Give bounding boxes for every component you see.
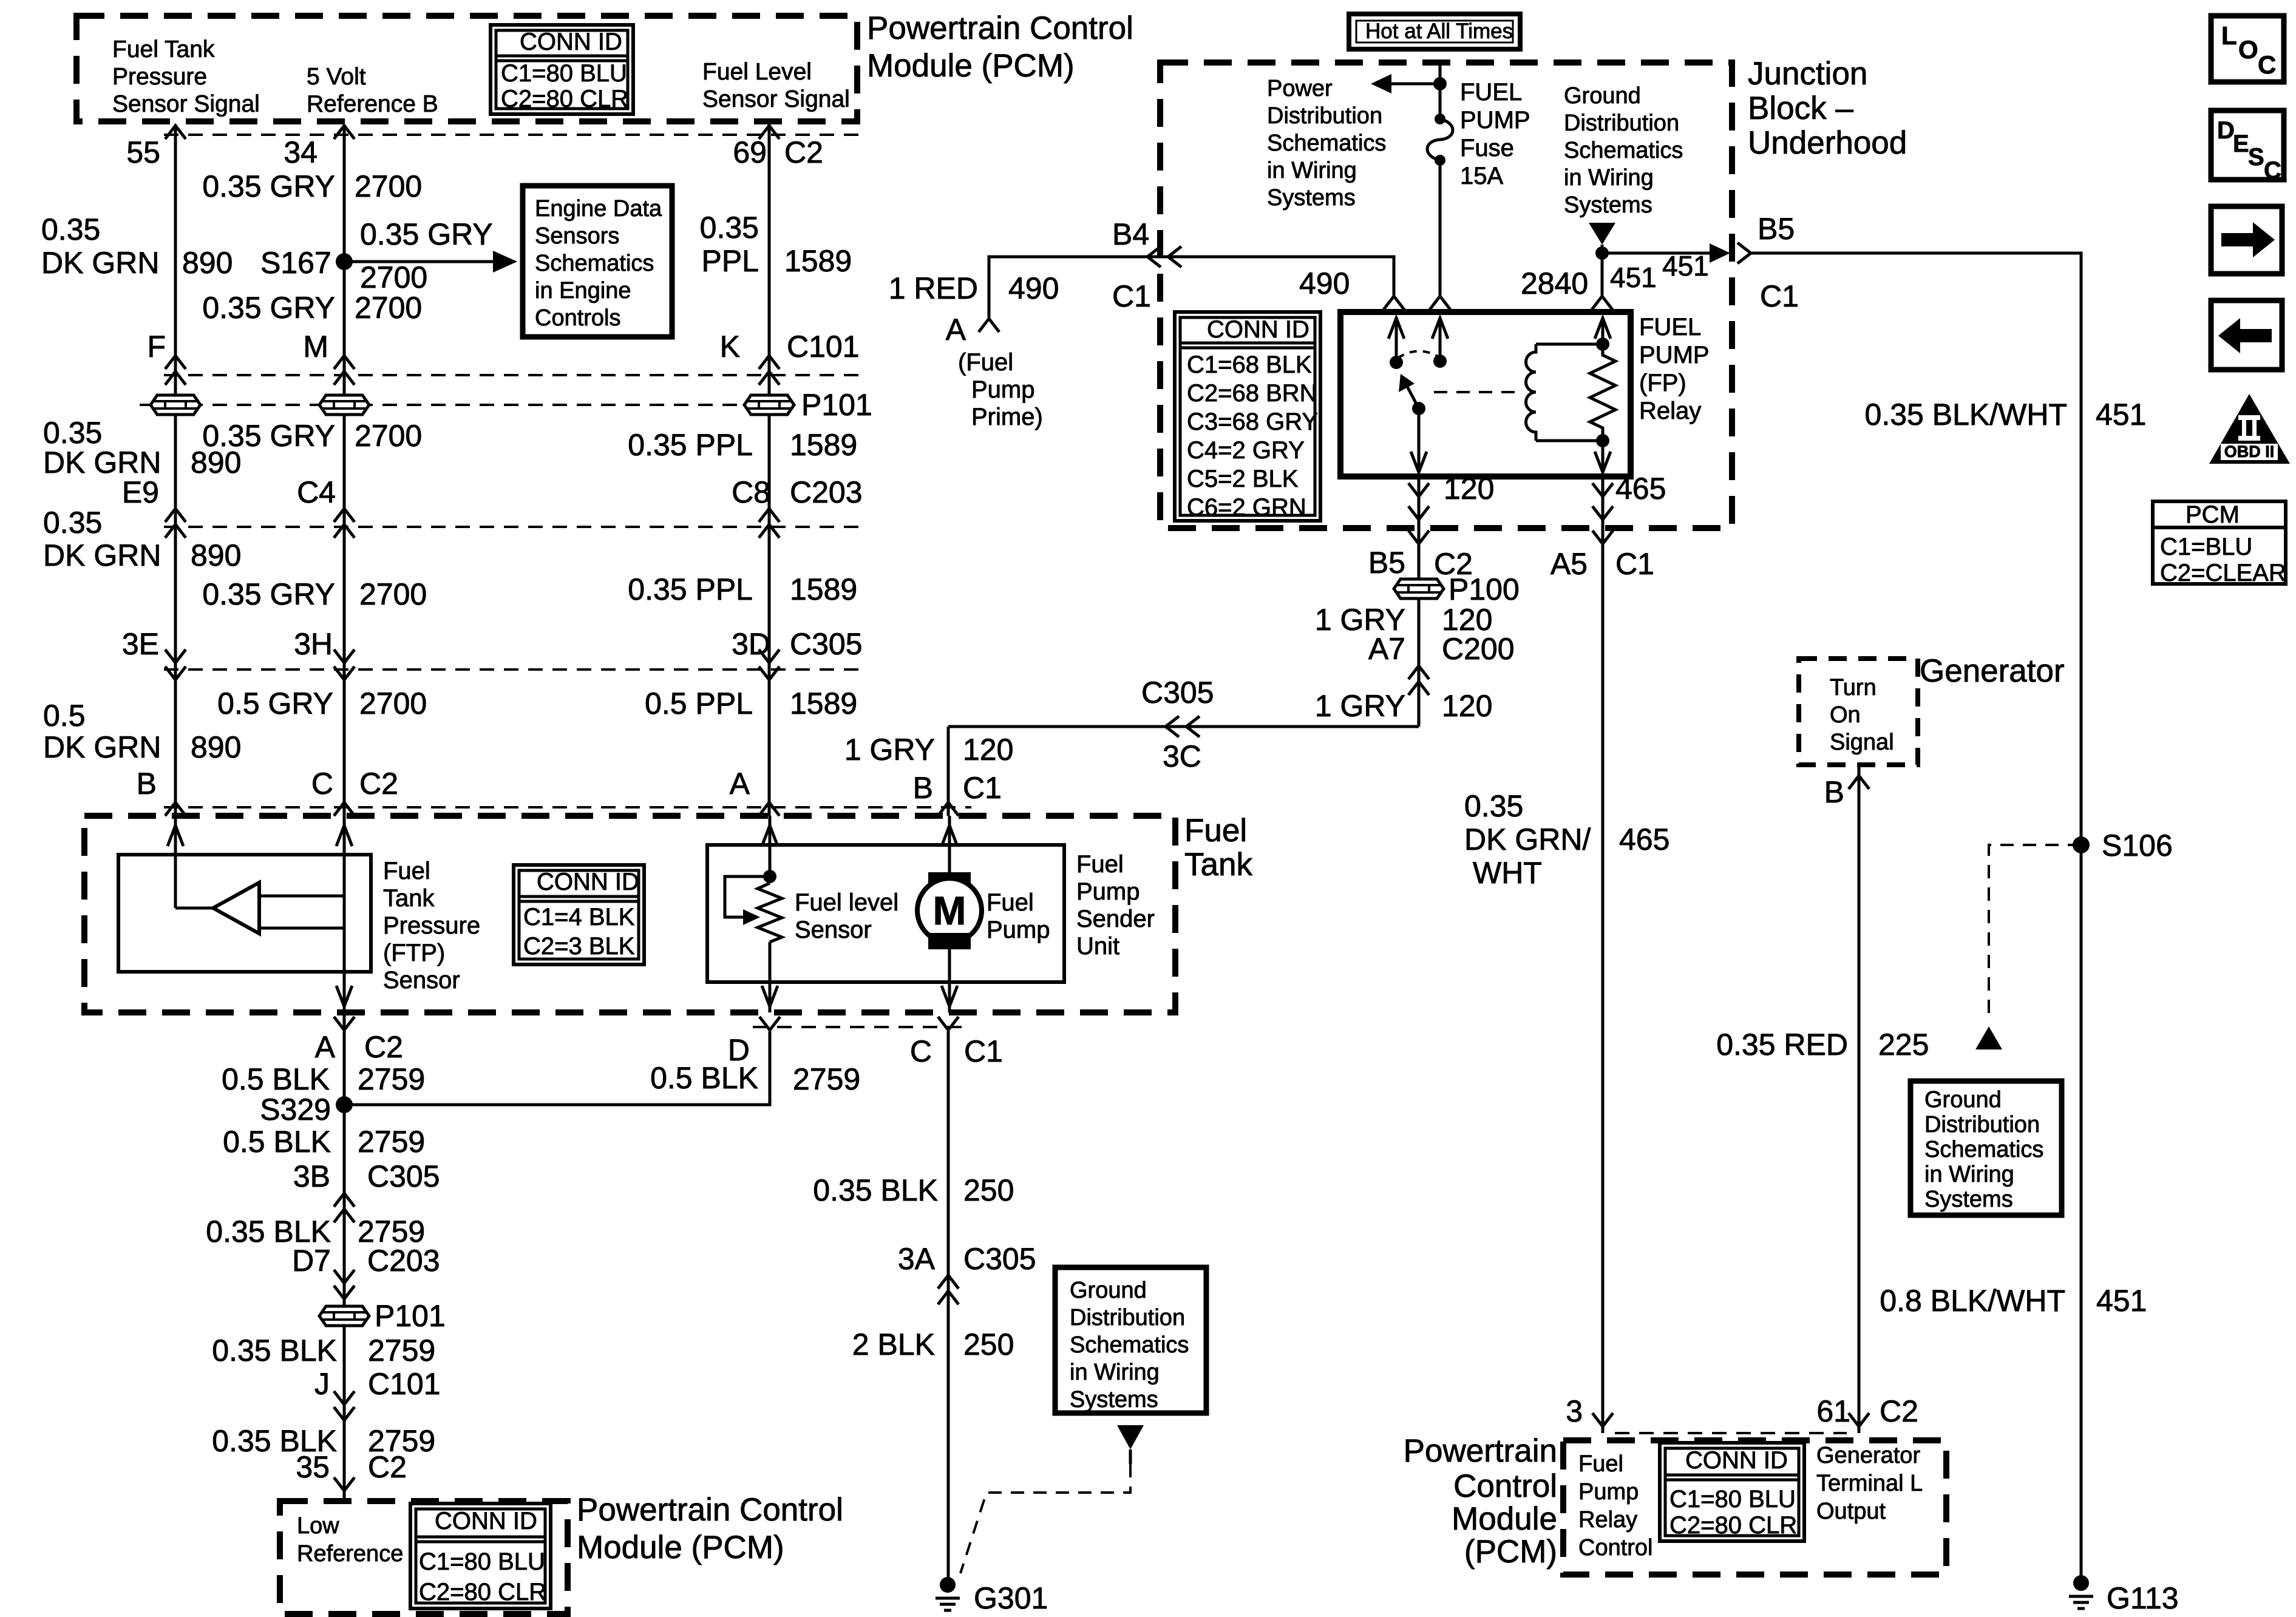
svg-text:Pump: Pump <box>971 376 1035 403</box>
svg-text:0.35 GRY: 0.35 GRY <box>360 217 493 251</box>
svg-text:C1: C1 <box>1760 279 1799 313</box>
svg-text:0.35: 0.35 <box>41 212 100 246</box>
svg-text:C5=2 BLK: C5=2 BLK <box>1187 466 1299 492</box>
svg-text:C305: C305 <box>963 1242 1036 1276</box>
svg-text:C1: C1 <box>964 1034 1003 1068</box>
svg-text:DK GRN: DK GRN <box>43 730 161 764</box>
svg-text:C2=CLEAR: C2=CLEAR <box>2160 560 2286 586</box>
svg-text:CONN ID: CONN ID <box>1685 1447 1788 1474</box>
svg-text:CONN ID: CONN ID <box>537 869 639 895</box>
svg-text:Control: Control <box>1578 1535 1653 1561</box>
svg-text:C2=80 CLR: C2=80 CLR <box>419 1579 546 1605</box>
svg-text:3B: 3B <box>293 1159 330 1193</box>
svg-text:Schematics: Schematics <box>1924 1137 2043 1162</box>
svg-text:CONN ID: CONN ID <box>435 1508 537 1534</box>
svg-text:0.35 BLK/WHT: 0.35 BLK/WHT <box>1865 398 2067 432</box>
svg-text:C2=80 CLR: C2=80 CLR <box>1669 1512 1797 1539</box>
svg-text:C2=68 BRN: C2=68 BRN <box>1187 380 1317 407</box>
svg-text:A5: A5 <box>1550 547 1588 581</box>
svg-text:1 GRY: 1 GRY <box>1315 689 1405 723</box>
svg-text:B: B <box>913 771 933 805</box>
svg-text:PUMP: PUMP <box>1639 342 1710 368</box>
svg-text:(FP): (FP) <box>1639 370 1686 396</box>
svg-text:451: 451 <box>2096 1284 2147 1318</box>
svg-text:Module: Module <box>1452 1501 1557 1537</box>
svg-text:451: 451 <box>2096 398 2146 432</box>
svg-text:2700: 2700 <box>355 419 422 453</box>
svg-text:Pump: Pump <box>1076 878 1140 905</box>
svg-text:Ground: Ground <box>1924 1087 2002 1113</box>
svg-text:Control: Control <box>1453 1468 1557 1504</box>
svg-text:465: 465 <box>1619 822 1669 856</box>
svg-text:in Engine: in Engine <box>535 278 631 303</box>
svg-text:1589: 1589 <box>790 428 857 462</box>
svg-text:C1=80 BLU: C1=80 BLU <box>501 60 627 87</box>
svg-text:Junction: Junction <box>1748 56 1867 92</box>
svg-text:C1=68 BLK: C1=68 BLK <box>1187 351 1312 378</box>
svg-text:1 RED: 1 RED <box>889 271 978 305</box>
svg-text:G113: G113 <box>2107 1581 2179 1615</box>
svg-text:F: F <box>147 330 166 364</box>
svg-text:3: 3 <box>1566 1394 1583 1428</box>
svg-text:C203: C203 <box>790 475 863 509</box>
svg-text:3C: 3C <box>1163 739 1201 773</box>
svg-text:M: M <box>933 888 966 933</box>
svg-text:C305: C305 <box>1141 676 1214 710</box>
svg-text:120: 120 <box>1444 472 1494 506</box>
svg-text:C1: C1 <box>1615 547 1654 581</box>
svg-text:Fuel: Fuel <box>1184 813 1247 849</box>
svg-text:Sensor: Sensor <box>383 967 460 994</box>
svg-text:(PCM): (PCM) <box>1464 1534 1557 1570</box>
svg-text:DK GRN: DK GRN <box>43 446 161 480</box>
svg-text:B4: B4 <box>1112 217 1149 251</box>
svg-text:C4=2 GRY: C4=2 GRY <box>1187 437 1305 464</box>
svg-text:Module (PCM): Module (PCM) <box>577 1530 784 1565</box>
svg-text:0.5 GRY: 0.5 GRY <box>217 686 333 720</box>
svg-text:890: 890 <box>182 246 233 280</box>
svg-text:Sensor Signal: Sensor Signal <box>112 91 260 117</box>
svg-text:1589: 1589 <box>790 686 857 720</box>
svg-text:Schematics: Schematics <box>1267 131 1386 156</box>
svg-text:(FTP): (FTP) <box>383 940 445 966</box>
svg-text:A: A <box>946 313 966 347</box>
svg-text:C1=4 BLK: C1=4 BLK <box>523 904 635 931</box>
svg-text:C: C <box>311 767 333 801</box>
svg-text:E: E <box>2233 131 2249 157</box>
svg-text:Powertrain Control: Powertrain Control <box>577 1492 843 1528</box>
svg-text:890: 890 <box>191 538 241 572</box>
svg-text:0.8 BLK/WHT: 0.8 BLK/WHT <box>1880 1284 2065 1318</box>
svg-text:B5: B5 <box>1758 212 1795 246</box>
svg-text:C305: C305 <box>790 627 863 661</box>
svg-text:C1: C1 <box>963 771 1002 805</box>
svg-text:0.35 RED: 0.35 RED <box>1716 1028 1848 1062</box>
svg-text:C101: C101 <box>787 330 860 364</box>
svg-text:in Wiring: in Wiring <box>1564 165 1654 191</box>
svg-text:Sensor Signal: Sensor Signal <box>702 86 850 112</box>
svg-text:P101: P101 <box>375 1299 446 1333</box>
svg-text:PPL: PPL <box>701 244 759 278</box>
svg-text:Sensors: Sensors <box>535 223 619 249</box>
svg-text:DK GRN: DK GRN <box>41 246 159 280</box>
svg-text:0.35: 0.35 <box>43 416 102 450</box>
svg-text:S: S <box>2248 144 2264 171</box>
svg-text:35: 35 <box>296 1450 330 1484</box>
svg-text:Unit: Unit <box>1076 933 1119 960</box>
svg-text:Ground: Ground <box>1564 83 1641 109</box>
svg-text:Fuel: Fuel <box>1076 851 1124 878</box>
svg-text:Schematics: Schematics <box>535 251 654 276</box>
svg-text:2 BLK: 2 BLK <box>852 1327 935 1361</box>
svg-text:69: 69 <box>733 135 767 169</box>
svg-text:Tank: Tank <box>383 885 435 912</box>
svg-text:DK GRN: DK GRN <box>43 538 161 572</box>
svg-text:in Wiring: in Wiring <box>1267 158 1357 183</box>
svg-text:250: 250 <box>963 1173 1014 1207</box>
svg-text:PCM: PCM <box>2186 501 2240 528</box>
svg-text:34: 34 <box>284 135 318 169</box>
svg-text:2759: 2759 <box>793 1062 860 1096</box>
svg-text:Fuel: Fuel <box>987 889 1034 916</box>
svg-text:G301: G301 <box>974 1581 1048 1615</box>
svg-text:3H: 3H <box>294 627 333 661</box>
svg-text:Fuel level: Fuel level <box>795 889 898 916</box>
svg-text:O: O <box>2238 35 2258 64</box>
svg-text:Hot at All Times: Hot at All Times <box>1365 19 1513 43</box>
svg-text:C101: C101 <box>368 1367 441 1401</box>
svg-text:Powertrain Control: Powertrain Control <box>867 10 1133 46</box>
svg-text:Tank: Tank <box>1184 847 1252 883</box>
svg-text:A7: A7 <box>1368 632 1405 666</box>
svg-text:A: A <box>315 1030 336 1064</box>
svg-text:2759: 2759 <box>358 1125 425 1159</box>
svg-text:(Fuel: (Fuel <box>958 349 1013 376</box>
svg-text:C4: C4 <box>297 475 336 509</box>
svg-text:in Wiring: in Wiring <box>1924 1162 2014 1187</box>
svg-text:C2: C2 <box>1880 1394 1918 1428</box>
svg-text:C305: C305 <box>367 1159 440 1193</box>
svg-text:Relay: Relay <box>1578 1507 1637 1533</box>
svg-text:0.35 BLK: 0.35 BLK <box>212 1334 337 1368</box>
svg-text:C: C <box>910 1034 932 1068</box>
svg-text:451: 451 <box>1662 250 1709 282</box>
svg-text:0.35 GRY: 0.35 GRY <box>202 577 335 611</box>
svg-text:CONN ID: CONN ID <box>1207 316 1309 343</box>
svg-text:0.35 GRY: 0.35 GRY <box>202 169 335 203</box>
svg-text:C2: C2 <box>784 135 823 169</box>
svg-text:490: 490 <box>1299 266 1350 300</box>
svg-text:Distribution: Distribution <box>1924 1112 2040 1137</box>
svg-text:C2: C2 <box>364 1030 403 1064</box>
svg-text:Controls: Controls <box>535 305 621 331</box>
svg-text:P100: P100 <box>1449 572 1520 606</box>
svg-text:C1=BLU: C1=BLU <box>2160 534 2252 560</box>
svg-text:C1=80 BLU: C1=80 BLU <box>419 1548 545 1575</box>
svg-text:Fuse: Fuse <box>1460 135 1514 161</box>
svg-text:0.5 BLK: 0.5 BLK <box>222 1062 330 1096</box>
svg-text:K: K <box>720 330 740 364</box>
svg-text:C2: C2 <box>368 1450 407 1484</box>
svg-text:D: D <box>2217 117 2235 144</box>
svg-text:Systems: Systems <box>1564 192 1652 218</box>
svg-text:Ground: Ground <box>1070 1278 1147 1303</box>
svg-text:OBD II: OBD II <box>2224 442 2275 461</box>
svg-text:2759: 2759 <box>358 1062 425 1096</box>
svg-text:B: B <box>1824 775 1844 809</box>
svg-text:0.35 GRY: 0.35 GRY <box>202 419 335 453</box>
svg-text:C1=80 BLU: C1=80 BLU <box>1669 1486 1796 1513</box>
svg-text:55: 55 <box>126 135 160 169</box>
svg-text:C: C <box>2264 157 2281 184</box>
svg-text:C3=68 GRY: C3=68 GRY <box>1187 408 1318 435</box>
svg-text:Sensor: Sensor <box>795 917 872 943</box>
svg-text:0.35: 0.35 <box>43 506 102 540</box>
svg-text:225: 225 <box>1878 1028 1929 1062</box>
svg-text:S329: S329 <box>260 1093 331 1127</box>
svg-text:2840: 2840 <box>1521 266 1588 300</box>
svg-text:1589: 1589 <box>790 572 857 606</box>
svg-text:Power: Power <box>1267 76 1333 101</box>
svg-text:Pump: Pump <box>1578 1479 1639 1505</box>
svg-text:Systems: Systems <box>1267 185 1356 211</box>
svg-text:Fuel Tank: Fuel Tank <box>112 36 215 63</box>
svg-text:Schematics: Schematics <box>1070 1332 1189 1358</box>
svg-text:120: 120 <box>963 733 1013 767</box>
svg-text:C2=3 BLK: C2=3 BLK <box>523 933 635 960</box>
svg-text:Relay: Relay <box>1639 398 1701 424</box>
svg-text:0.35: 0.35 <box>700 211 759 245</box>
svg-text:CONN ID: CONN ID <box>520 29 622 55</box>
svg-text:0.35 BLK: 0.35 BLK <box>813 1173 938 1207</box>
svg-text:A: A <box>730 767 750 801</box>
svg-text:DK GRN/: DK GRN/ <box>1464 822 1591 856</box>
svg-text:Block –: Block – <box>1748 90 1853 126</box>
svg-text:Signal: Signal <box>1830 730 1894 755</box>
svg-text:120: 120 <box>1442 689 1492 723</box>
svg-text:Module (PCM): Module (PCM) <box>867 48 1075 84</box>
svg-text:0.5: 0.5 <box>43 699 86 733</box>
svg-text:S106: S106 <box>2102 829 2173 863</box>
svg-text:Terminal L: Terminal L <box>1816 1471 1923 1496</box>
svg-text:2700: 2700 <box>355 169 422 203</box>
svg-text:WHT: WHT <box>1473 856 1542 890</box>
svg-text:451: 451 <box>1610 262 1657 293</box>
svg-text:C: C <box>2258 50 2276 79</box>
svg-text:J: J <box>314 1367 330 1401</box>
svg-text:C2=80 CLR: C2=80 CLR <box>501 86 628 112</box>
svg-text:Distribution: Distribution <box>1267 103 1382 129</box>
svg-text:1589: 1589 <box>784 244 852 278</box>
svg-text:Underhood: Underhood <box>1748 125 1907 161</box>
svg-text:Pressure: Pressure <box>112 64 207 90</box>
svg-text:L: L <box>2221 21 2237 50</box>
svg-text:PUMP: PUMP <box>1460 107 1530 134</box>
svg-text:3A: 3A <box>898 1242 936 1276</box>
svg-text:Distribution: Distribution <box>1070 1305 1185 1331</box>
svg-text:Turn: Turn <box>1830 675 1877 700</box>
svg-text:0.5 BLK: 0.5 BLK <box>223 1125 331 1159</box>
svg-text:0.5 PPL: 0.5 PPL <box>645 686 753 720</box>
svg-text:FUEL: FUEL <box>1460 79 1522 106</box>
svg-text:Fuel Level: Fuel Level <box>702 59 812 85</box>
svg-text:Systems: Systems <box>1070 1387 1158 1412</box>
svg-text:Pressure: Pressure <box>383 912 480 939</box>
svg-text:C1: C1 <box>1112 279 1151 313</box>
svg-text:0.5 BLK: 0.5 BLK <box>650 1061 758 1095</box>
svg-text:Generator: Generator <box>1920 653 2065 689</box>
svg-text:Systems: Systems <box>1924 1187 2013 1212</box>
svg-text:C200: C200 <box>1442 632 1515 666</box>
svg-text:M: M <box>303 330 328 364</box>
svg-text:Sender: Sender <box>1076 906 1155 932</box>
svg-text:S167: S167 <box>260 246 331 280</box>
svg-text:Pump: Pump <box>987 917 1050 943</box>
svg-text:0.35 PPL: 0.35 PPL <box>628 572 753 606</box>
svg-text:C8: C8 <box>732 475 770 509</box>
svg-text:61: 61 <box>1816 1394 1850 1428</box>
svg-text:Schematics: Schematics <box>1564 138 1683 163</box>
svg-text:FUEL: FUEL <box>1639 314 1701 341</box>
svg-text:Reference B: Reference B <box>307 91 438 117</box>
svg-text:B5: B5 <box>1368 546 1405 580</box>
svg-text:D7: D7 <box>292 1244 331 1278</box>
svg-text:2700: 2700 <box>359 577 427 611</box>
svg-text:C6=2 GRN: C6=2 GRN <box>1187 494 1306 521</box>
svg-text:890: 890 <box>191 730 241 764</box>
svg-text:0.35: 0.35 <box>1464 789 1523 823</box>
svg-text:490: 490 <box>1008 271 1059 305</box>
svg-text:250: 250 <box>963 1327 1014 1361</box>
svg-text:Low: Low <box>297 1513 339 1539</box>
svg-text:1 GRY: 1 GRY <box>844 733 935 767</box>
svg-text:Fuel: Fuel <box>1578 1451 1623 1477</box>
svg-text:Fuel: Fuel <box>383 858 430 884</box>
svg-text:5 Volt: 5 Volt <box>307 64 366 90</box>
svg-text:465: 465 <box>1615 472 1666 506</box>
svg-text:0.35 GRY: 0.35 GRY <box>202 291 335 325</box>
svg-text:Reference: Reference <box>297 1541 403 1567</box>
svg-text:0.35 PPL: 0.35 PPL <box>628 428 753 462</box>
svg-text:On: On <box>1830 702 1861 728</box>
svg-text:Output: Output <box>1816 1499 1886 1524</box>
svg-text:2759: 2759 <box>368 1334 435 1368</box>
svg-text:Distribution: Distribution <box>1564 110 1679 136</box>
svg-text:2700: 2700 <box>360 260 427 294</box>
svg-text:2700: 2700 <box>355 291 422 325</box>
svg-text:P101: P101 <box>801 388 872 422</box>
svg-text:B: B <box>137 767 157 801</box>
svg-text:Prime): Prime) <box>971 404 1043 430</box>
svg-text:Powertrain: Powertrain <box>1404 1433 1557 1469</box>
svg-text:2700: 2700 <box>359 686 427 720</box>
svg-text:C2: C2 <box>359 767 398 801</box>
svg-text:in Wiring: in Wiring <box>1070 1360 1160 1385</box>
svg-text:Engine Data: Engine Data <box>535 196 662 222</box>
svg-text:E9: E9 <box>122 475 159 509</box>
svg-text:15A: 15A <box>1460 163 1503 189</box>
svg-text:C203: C203 <box>367 1244 440 1278</box>
svg-text:Generator: Generator <box>1816 1443 1920 1468</box>
svg-text:3E: 3E <box>122 627 159 661</box>
